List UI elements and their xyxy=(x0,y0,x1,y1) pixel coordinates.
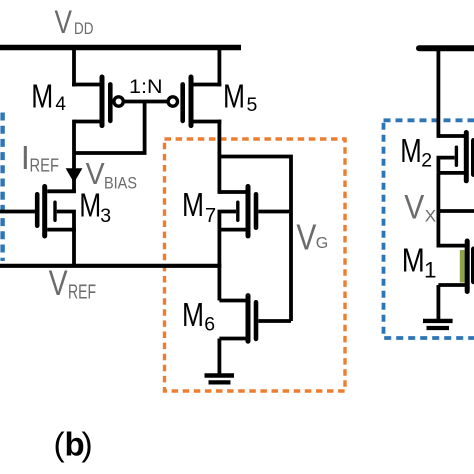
blue dashed box (right, cut off) xyxy=(384,120,474,338)
wire M3 source to V_REF rail xyxy=(72,230,76,266)
wire VDD to M2 drain xyxy=(436,50,440,138)
svg-text:4: 4 xyxy=(55,94,66,115)
label V_REF xyxy=(49,264,96,303)
label 1:N xyxy=(129,76,163,98)
wire M5 drain to M7 drain xyxy=(217,120,221,194)
svg-text:): ) xyxy=(82,427,93,464)
ground (M6) xyxy=(205,376,235,383)
wire VDD to M5 source xyxy=(217,50,221,86)
svg-text:M: M xyxy=(182,296,204,333)
label V_DD xyxy=(55,4,94,40)
svg-text:3: 3 xyxy=(100,205,111,227)
svg-text:BIAS: BIAS xyxy=(104,173,137,192)
label M3 xyxy=(79,187,111,228)
svg-text:(: ( xyxy=(54,427,65,464)
svg-text:V: V xyxy=(49,264,69,303)
label (b) xyxy=(54,426,93,464)
transistor M3 xyxy=(0,187,76,237)
svg-text:V: V xyxy=(296,217,317,258)
svg-text:I: I xyxy=(21,139,30,176)
transistor M6 xyxy=(219,296,291,342)
svg-text:6: 6 xyxy=(204,313,215,335)
transistor M4 xyxy=(72,77,123,126)
label I_REF xyxy=(21,139,59,176)
wire M6 source to ground xyxy=(217,339,221,375)
svg-text:M: M xyxy=(79,187,101,224)
label M2 xyxy=(400,132,432,172)
V_REF rail xyxy=(0,264,221,268)
wire V_BIAS vertical (M4 drain to M3 drain) xyxy=(72,120,76,193)
transistor M2 xyxy=(438,133,473,181)
blue dashed box (left, cut off) xyxy=(0,113,4,262)
svg-text:REF: REF xyxy=(68,281,96,303)
VDD rail (right) xyxy=(419,45,474,51)
svg-text:5: 5 xyxy=(247,94,258,116)
svg-text:G: G xyxy=(316,235,328,252)
svg-text:M: M xyxy=(223,79,245,116)
svg-text:M: M xyxy=(182,186,204,223)
svg-text:2: 2 xyxy=(421,150,432,172)
svg-text:REF: REF xyxy=(30,155,60,176)
wire V_BIAS to gate tap xyxy=(74,102,145,154)
wire VDD to M4 source xyxy=(72,50,76,86)
svg-text:M: M xyxy=(31,79,53,116)
wire V_G tap xyxy=(219,157,291,322)
label M7 xyxy=(182,186,216,227)
svg-text:X: X xyxy=(425,207,436,226)
label M6 xyxy=(182,296,215,335)
wire M1 source to ground xyxy=(436,285,440,320)
svg-text:7: 7 xyxy=(205,205,216,227)
label M1 xyxy=(402,243,437,283)
transistor M5 xyxy=(168,77,221,126)
svg-text:V: V xyxy=(404,189,424,227)
I_REF arrow xyxy=(66,168,83,183)
wire M2 source to M1 drain xyxy=(436,173,440,248)
orange dashed box xyxy=(165,139,346,391)
svg-text:V: V xyxy=(55,4,73,40)
label V_BIAS xyxy=(86,156,137,192)
VDD rail (left) xyxy=(0,45,241,51)
wire V_X node xyxy=(438,209,474,213)
svg-text:1:N: 1:N xyxy=(129,76,163,98)
svg-text:DD: DD xyxy=(74,20,94,38)
svg-text:M: M xyxy=(402,243,425,280)
ground (M1) xyxy=(423,321,453,328)
label M5 xyxy=(223,79,258,117)
transistor M1 xyxy=(438,241,473,292)
label V_X xyxy=(404,189,436,227)
label M4 xyxy=(31,79,66,116)
transistor M7 xyxy=(219,187,291,237)
label V_G xyxy=(296,217,328,258)
wire M7 source to M6 drain xyxy=(217,230,221,301)
wire M4-M5 gate link xyxy=(123,100,168,104)
svg-text:M: M xyxy=(400,132,422,169)
svg-text:1: 1 xyxy=(424,258,437,283)
